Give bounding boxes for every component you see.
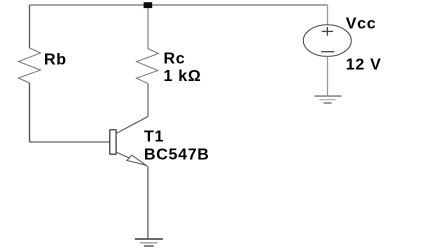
- svg-text:Rb: Rb: [44, 51, 67, 68]
- svg-text:Rc: Rc: [164, 50, 186, 67]
- svg-text:BC547B: BC547B: [144, 146, 210, 163]
- svg-text:T1: T1: [144, 128, 164, 145]
- svg-text:12 V: 12 V: [346, 56, 382, 73]
- svg-text:1 kΩ: 1 kΩ: [164, 68, 202, 85]
- svg-text:Vcc: Vcc: [346, 15, 377, 32]
